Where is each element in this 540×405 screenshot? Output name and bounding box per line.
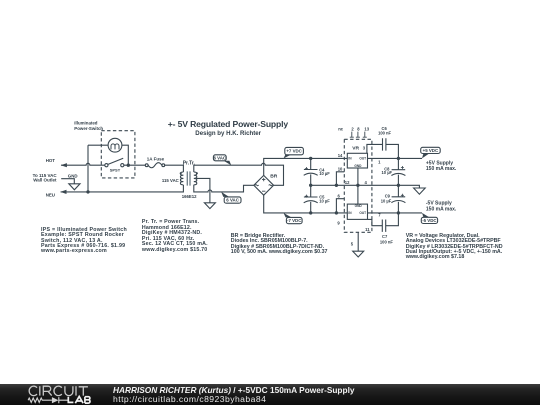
svg-text:11: 11	[365, 227, 370, 232]
wire secondary bottom to bridge AC left	[194, 185, 254, 192]
circuitlab logo	[20, 384, 100, 405]
svg-text:10 µF: 10 µF	[319, 171, 330, 176]
wire pin3 to C6	[367, 144, 382, 153]
wire lamp feed vertical	[87, 145, 89, 192]
junction dot pin6	[335, 211, 338, 214]
fuse F1	[145, 163, 164, 168]
note block transformer	[142, 220, 208, 253]
svg-text:1A Fuse: 1A Fuse	[147, 157, 165, 162]
wire +5 output rail	[368, 157, 423, 159]
svg-text:4: 4	[365, 180, 368, 185]
VR dashed enclosure	[344, 139, 372, 232]
label C9 value	[381, 194, 392, 204]
IPS dashed enclosure	[101, 131, 135, 178]
lamp IPS circle	[108, 138, 122, 152]
label 166E12	[182, 194, 197, 199]
capacitor C4	[304, 158, 318, 185]
footer text line1	[113, 385, 355, 395]
transformer T1 secondary coil	[194, 172, 197, 185]
logo letter C	[29, 386, 37, 396]
wire pin11 to C7	[368, 219, 383, 225]
svg-text:6 VAC: 6 VAC	[213, 155, 226, 160]
regulator pin names	[348, 157, 366, 215]
svg-text:-5 VDC: -5 VDC	[422, 218, 437, 223]
svg-text:BR: BR	[270, 174, 278, 180]
svg-text:Illuminated: Illuminated	[74, 121, 97, 126]
label 1A Fuse	[147, 157, 165, 162]
svg-text:VR: VR	[352, 146, 359, 152]
svg-text:OUT: OUT	[359, 211, 366, 215]
wire bridge plus output to +7 rail	[264, 158, 348, 175]
transformer core	[187, 171, 190, 185]
capacitor C9	[391, 185, 405, 213]
svg-text:2: 2	[351, 127, 354, 132]
ground earth at transformer	[204, 203, 215, 209]
wire lamp right down to switch output	[122, 145, 128, 165]
label C8 value	[382, 166, 393, 175]
svg-text:-7 VDC: -7 VDC	[287, 218, 302, 223]
svg-text:10 µF: 10 µF	[319, 198, 330, 203]
label SPST	[110, 168, 121, 173]
title	[168, 119, 288, 129]
wire lamp left	[88, 144, 108, 146]
svg-text:OUT: OUT	[359, 157, 366, 161]
logo letter U	[65, 386, 73, 395]
wire bridge minus output to -7 rail	[264, 195, 348, 213]
net flag 6 VAC top	[213, 155, 231, 165]
label C7 value	[380, 234, 393, 245]
switch SPST contacts	[105, 158, 124, 167]
footer text line2	[113, 394, 266, 404]
capacitor C7	[382, 220, 385, 232]
junction dot C4 top	[309, 157, 312, 160]
net flag +5 VDC	[421, 147, 441, 158]
junction dot pin10	[335, 184, 338, 187]
label To 115 VAC Wall Outlet	[33, 173, 58, 183]
svg-text:Power-Switch: Power-Switch	[74, 126, 103, 131]
capacitor C6	[383, 138, 386, 150]
svg-text:10 µF: 10 µF	[381, 198, 392, 203]
VR nc pin stubs	[350, 132, 367, 138]
wire C6 to +5 rail	[386, 144, 398, 158]
svg-text:1: 1	[378, 160, 381, 165]
junction dot C5 bottom	[309, 211, 312, 214]
svg-text:14: 14	[338, 153, 343, 158]
svg-text:GND: GND	[68, 173, 78, 178]
svg-text:150 mA max.: 150 mA max.	[426, 166, 457, 172]
svg-text:+5 VDC: +5 VDC	[423, 148, 439, 153]
svg-text:5: 5	[351, 241, 354, 246]
port NEU arrow	[60, 190, 66, 194]
wire switch to fuse	[124, 164, 145, 166]
port HOT arrow	[61, 163, 67, 167]
capacitor C5	[304, 185, 318, 213]
label C6 value	[378, 126, 391, 136]
pin labels right	[351, 146, 382, 247]
transformer T1 primary coil	[180, 172, 183, 185]
svg-text:6: 6	[338, 194, 341, 199]
svg-text:Wall Outlet: Wall Outlet	[33, 178, 57, 183]
logo letter C	[54, 386, 62, 396]
footer bar	[0, 384, 540, 405]
label C4 value	[319, 167, 330, 176]
svg-text:10: 10	[338, 167, 343, 172]
capacitor C8	[391, 158, 405, 185]
svg-text:9: 9	[337, 221, 340, 226]
svg-text:150 mA max.: 150 mA max.	[426, 206, 457, 212]
ground earth wall outlet	[69, 184, 80, 190]
transformer phase dots	[180, 172, 198, 174]
logo letter I	[39, 386, 41, 395]
wire pin6 jog to minus rail	[336, 199, 344, 213]
logo letter I	[75, 386, 77, 395]
logo word LAB	[68, 397, 90, 404]
label Pr.Tr.	[183, 160, 196, 166]
net flag +7 VDC	[284, 147, 304, 158]
junction dot mid rail at C8C9	[397, 184, 400, 187]
svg-text:GND: GND	[354, 164, 362, 168]
bridge rectifier BR	[254, 175, 274, 195]
wire HOT line	[61, 163, 105, 165]
svg-text:HOT: HOT	[46, 158, 56, 163]
regulator U1 top box	[347, 153, 367, 168]
svg-text:100 nF: 100 nF	[378, 131, 391, 136]
label NEU	[46, 193, 55, 198]
ground earth pin5	[353, 251, 364, 257]
logo letter R	[43, 386, 51, 395]
svg-text:166E12: 166E12	[182, 194, 197, 199]
note block regulator	[406, 234, 503, 261]
ground earth right	[414, 188, 426, 194]
net flag -7 VDC	[284, 213, 303, 224]
note block IPS	[41, 228, 127, 255]
svg-text:+7 VDC: +7 VDC	[286, 149, 302, 154]
label HOT	[46, 158, 56, 163]
svg-text:115 VAC: 115 VAC	[162, 178, 179, 183]
svg-text:GND: GND	[355, 204, 363, 208]
label -5V Supply	[426, 201, 457, 213]
label GND	[68, 173, 78, 178]
net flag 6 VAC bottom	[221, 192, 241, 203]
wire secondary top to bridge AC right	[194, 163, 284, 185]
svg-text:6 VAC: 6 VAC	[226, 198, 239, 203]
svg-text:Pr.Tr.: Pr.Tr.	[183, 160, 196, 166]
wire center tap to earth	[196, 178, 210, 202]
regulator U2 bottom box	[347, 204, 367, 219]
svg-text:12: 12	[345, 180, 350, 185]
svg-text:3: 3	[363, 146, 366, 151]
label C5 value	[319, 194, 330, 203]
wire pin5 ground stub	[357, 232, 359, 251]
wire GND link between regulators	[357, 168, 359, 204]
junction dot GND link to mid rail	[356, 184, 359, 187]
logo letter T	[79, 387, 88, 396]
pin labels top	[338, 127, 370, 132]
note block bridge	[231, 234, 328, 256]
svg-text:10 µF: 10 µF	[382, 170, 393, 175]
label +5V Supply	[426, 160, 457, 172]
junction dot at NEU x88	[86, 190, 89, 193]
label VR	[352, 146, 359, 152]
net flag texts	[213, 148, 438, 223]
wire pin10 jog to ground rail	[336, 172, 344, 186]
label BR	[270, 174, 278, 180]
svg-text:8: 8	[357, 127, 360, 132]
wire wall outlet ground	[61, 179, 74, 184]
junction dot +5 rail	[397, 157, 400, 160]
svg-text:13: 13	[364, 127, 369, 132]
label 115 VAC	[162, 178, 179, 183]
svg-text:NEU: NEU	[46, 193, 55, 198]
wire fuse to primary top	[165, 165, 184, 172]
svg-text:SPST: SPST	[110, 168, 121, 173]
svg-text:C7: C7	[382, 234, 388, 239]
svg-text:nc: nc	[338, 127, 344, 132]
wire NEU line	[61, 185, 184, 192]
wire C7 to -5 rail	[386, 213, 399, 226]
net flag -5 VDC	[421, 213, 437, 224]
junction dot switch output	[127, 164, 130, 167]
svg-text:100 nF: 100 nF	[380, 239, 393, 244]
wire mid ground rail	[311, 185, 420, 188]
label Illuminated Power-Switch	[74, 121, 103, 131]
pin labels left	[337, 153, 350, 226]
logo resistor zigzag and diode	[28, 397, 68, 403]
junction dot mid rail at C4C5	[309, 184, 312, 187]
junction dot -5 rail	[397, 211, 400, 214]
wire -5 output rail	[368, 212, 423, 214]
bridge polarity marks	[255, 178, 272, 191]
